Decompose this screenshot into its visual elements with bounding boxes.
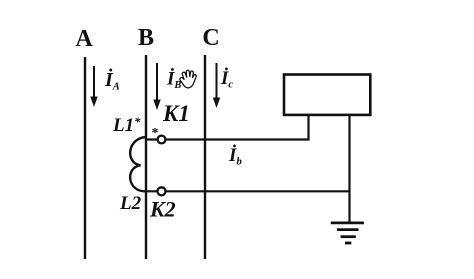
phase line A	[84, 57, 86, 259]
wire: box right terminal down to ground	[348, 114, 350, 223]
svg-text:K2: K2	[149, 197, 176, 222]
svg-text:K1: K1	[162, 101, 190, 126]
svg-text:B: B	[138, 25, 154, 51]
hand cursor icon	[180, 70, 196, 88]
wire: K1 to box (top secondary wire)	[146, 114, 309, 140]
current arrow IC	[213, 63, 220, 108]
wire: K2 to ground lead (bottom secondary wire)	[146, 190, 350, 192]
terminal K1	[158, 136, 166, 144]
terminal K2	[158, 187, 166, 195]
svg-text:A: A	[75, 26, 93, 52]
phase line C	[204, 55, 206, 259]
primary winding arcs L1-L2	[130, 137, 146, 191]
phase line B	[145, 55, 147, 259]
ground	[331, 223, 364, 243]
svg-text:L2: L2	[119, 193, 142, 214]
current arrow IB	[153, 63, 160, 110]
current arrow IA	[90, 66, 97, 107]
meter box U1	[284, 75, 370, 115]
svg-text:C: C	[202, 25, 219, 51]
